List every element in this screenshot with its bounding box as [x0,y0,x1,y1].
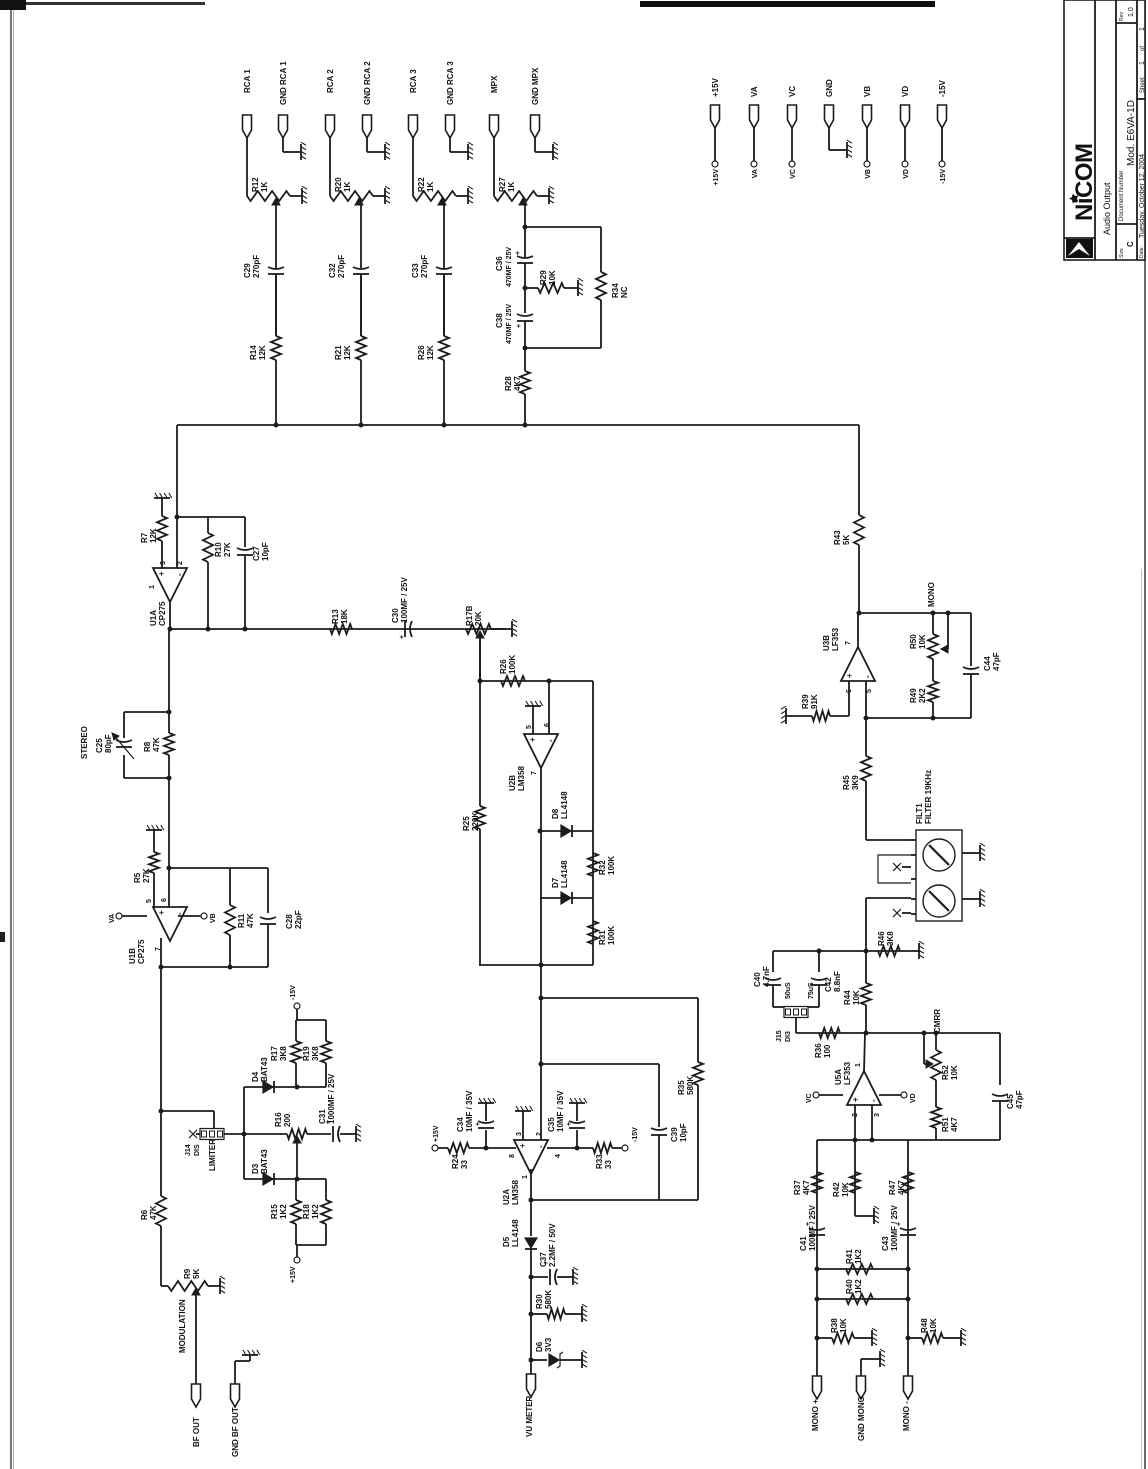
svg-text:GND BF OUT: GND BF OUT [231,1407,240,1457]
svg-text:VD: VD [910,1093,917,1103]
svg-text:10MF / 35V: 10MF / 35V [556,1090,565,1132]
svg-text:+: + [851,1097,860,1102]
svg-text:C37: C37 [539,1252,548,1267]
svg-text:R34: R34 [611,283,620,298]
svg-text:1K: 1K [260,182,269,192]
svg-text:80pF: 80pF [104,734,113,753]
svg-text:GND RCA 2: GND RCA 2 [363,61,372,105]
svg-text:2.2MF / 50V: 2.2MF / 50V [548,1223,557,1267]
svg-text:4: 4 [555,1154,562,1158]
svg-text:100MF / 25V: 100MF / 25V [890,1205,899,1251]
svg-text:FILTER 19KHz: FILTER 19KHz [924,770,933,824]
svg-text:1K2: 1K2 [854,1249,863,1264]
svg-text:LL4148: LL4148 [511,1219,520,1247]
svg-text:MONO +: MONO + [811,1399,820,1431]
svg-text:C36: C36 [495,256,504,271]
svg-text:-15V: -15V [632,1127,639,1142]
svg-text:MONO: MONO [927,582,936,607]
svg-text:5: 5 [146,899,153,903]
svg-text:C29: C29 [243,263,252,278]
svg-text:3K9: 3K9 [851,775,860,790]
svg-text:C43: C43 [881,1236,890,1251]
svg-text:R26: R26 [417,345,426,360]
svg-text:Audio Output: Audio Output [1102,182,1112,235]
svg-text:CP275: CP275 [137,939,146,964]
svg-text:RCA 3: RCA 3 [409,69,418,93]
svg-text:LM358: LM358 [511,1180,520,1205]
svg-text:580K: 580K [544,1290,553,1309]
svg-text:1.0: 1.0 [1128,7,1135,17]
svg-text:27K: 27K [223,542,232,557]
svg-text:R17B: R17B [465,605,474,626]
svg-text:1K: 1K [507,182,516,192]
svg-text:GND RCA 3: GND RCA 3 [446,61,455,105]
svg-text:-: - [175,912,184,915]
svg-text:+15V: +15V [433,1125,440,1142]
svg-text:MODULATION: MODULATION [178,1299,187,1353]
svg-text:10pF: 10pF [679,1123,688,1142]
svg-text:220K: 220K [471,812,480,831]
svg-text:C33: C33 [411,263,420,278]
svg-text:U1B: U1B [128,948,137,964]
svg-text:U2A: U2A [502,1189,511,1205]
svg-text:27K: 27K [142,868,151,883]
svg-text:5K: 5K [842,535,851,545]
svg-text:R28: R28 [504,376,513,391]
svg-text:R40: R40 [845,1279,854,1294]
svg-text:R52: R52 [941,1065,950,1080]
svg-text:R30: R30 [535,1294,544,1309]
svg-text:BAT43: BAT43 [260,1149,269,1174]
svg-text:U2B: U2B [508,775,517,791]
svg-text:5: 5 [526,725,533,729]
svg-text:C27: C27 [252,546,261,561]
svg-text:R26: R26 [499,659,508,674]
svg-text:BF OUT: BF OUT [192,1417,201,1447]
svg-text:1K2: 1K2 [854,1279,863,1294]
svg-text:D4: D4 [251,1071,260,1082]
svg-text:GND: GND [825,79,834,97]
svg-text:Title: Title [1066,241,1071,250]
svg-text:VB: VB [210,913,217,923]
svg-text:R14: R14 [249,345,258,360]
svg-text:1K2: 1K2 [311,1204,320,1219]
svg-text:R50: R50 [909,634,918,649]
svg-text:10K: 10K [852,990,861,1005]
svg-text:D7: D7 [551,877,560,888]
svg-text:2K2: 2K2 [918,688,927,703]
svg-text:MONO -: MONO - [902,1401,911,1431]
svg-text:FILT1: FILT1 [915,803,924,824]
svg-text:+: + [516,324,523,328]
svg-text:2: 2 [177,561,184,565]
svg-text:U5A: U5A [834,1069,843,1085]
svg-text:Tuesday, October 12, 2004: Tuesday, October 12, 2004 [1139,154,1146,238]
svg-text:12K: 12K [149,528,158,543]
svg-text:of: of [1140,46,1146,51]
svg-text:+: + [157,571,166,576]
svg-text:R44: R44 [843,990,852,1005]
svg-text:3K8: 3K8 [279,1046,288,1061]
svg-text:100MF / 25V: 100MF / 25V [808,1205,817,1251]
svg-text:DI3: DI3 [785,1031,792,1042]
svg-text:J14: J14 [185,1144,192,1156]
svg-text:3: 3 [160,561,167,565]
svg-text:R7: R7 [140,532,149,543]
svg-text:LM358: LM358 [517,766,526,791]
svg-text:R16: R16 [274,1112,283,1127]
svg-text:VC: VC [806,1093,813,1103]
svg-text:R38: R38 [830,1318,839,1333]
svg-text:10K: 10K [839,1318,848,1333]
svg-text:Mod. E6VA-1D: Mod. E6VA-1D [1126,100,1137,166]
svg-text:2: 2 [536,1132,543,1136]
svg-text:+: + [157,910,166,915]
svg-text:R37: R37 [793,1180,802,1195]
svg-text:1K: 1K [426,182,435,192]
svg-text:D5: D5 [502,1236,511,1247]
svg-text:33: 33 [604,1160,613,1169]
svg-text:1: 1 [1139,27,1146,31]
svg-text:1: 1 [1139,61,1146,65]
svg-text:8.8nF: 8.8nF [833,971,842,992]
svg-text:R12: R12 [251,177,260,192]
svg-text:R36: R36 [814,1043,823,1058]
svg-text:Size: Size [1119,248,1125,258]
svg-text:GND MONO: GND MONO [857,1396,866,1441]
svg-text:CMRR: CMRR [933,1009,942,1033]
svg-text:LL4148: LL4148 [560,791,569,819]
svg-text:10K: 10K [841,1182,850,1197]
svg-text:R27: R27 [498,177,507,192]
svg-text:1000MF / 25V: 1000MF / 25V [327,1073,336,1124]
svg-text:18K: 18K [340,609,349,624]
svg-text:U3B: U3B [822,635,831,651]
svg-text:10K: 10K [918,634,927,649]
svg-text:6: 6 [161,898,168,902]
svg-text:RCA 1: RCA 1 [243,69,252,93]
svg-text:R24: R24 [451,1154,460,1169]
svg-text:R11: R11 [237,913,246,928]
svg-text:+: + [845,673,854,678]
svg-text:C: C [1126,241,1135,247]
svg-text:VB: VB [865,169,872,179]
svg-text:-: - [863,675,872,678]
svg-text:22pF: 22pF [294,910,303,929]
svg-text:-15V: -15V [940,169,947,184]
svg-text:C41: C41 [799,1236,808,1251]
svg-text:C31: C31 [318,1109,327,1124]
svg-text:7: 7 [531,771,538,775]
svg-text:GND RCA 1: GND RCA 1 [279,61,288,105]
svg-text:+15V: +15V [290,1266,297,1283]
svg-text:C25: C25 [95,738,104,753]
svg-text:10K: 10K [929,1318,938,1333]
svg-text:LL4148: LL4148 [560,860,569,888]
svg-text:Sheet: Sheet [1140,77,1146,93]
svg-text:+15V: +15V [711,77,720,97]
svg-text:1: 1 [855,1063,862,1067]
svg-text:VA: VA [750,86,759,97]
svg-text:12K: 12K [258,345,267,360]
svg-text:50uS: 50uS [785,982,792,999]
svg-text:R48: R48 [920,1318,929,1333]
svg-text:R20: R20 [334,177,343,192]
svg-text:75uS: 75uS [808,982,815,999]
svg-text:R31: R31 [598,930,607,945]
svg-text:C40: C40 [753,972,762,987]
svg-text:1: 1 [149,585,156,589]
svg-text:R18: R18 [302,1204,311,1219]
svg-text:C38: C38 [495,313,504,328]
svg-text:+: + [518,1143,527,1148]
svg-text:-: - [546,739,555,742]
svg-text:47pF: 47pF [992,652,1001,671]
svg-text:MPX: MPX [490,75,499,93]
svg-text:100K: 100K [508,655,517,674]
svg-text:LF353: LF353 [831,627,840,651]
svg-text:8: 8 [509,1154,516,1158]
svg-text:R46: R46 [877,931,886,946]
svg-text:470MF / 25V: 470MF / 25V [506,247,513,287]
svg-text:3K8: 3K8 [886,931,895,946]
svg-text:D3: D3 [251,1163,260,1174]
svg-text:3: 3 [516,1132,523,1136]
svg-text:R22: R22 [417,177,426,192]
svg-text:VA: VA [752,169,759,178]
svg-text:12K: 12K [426,345,435,360]
svg-text:270pF: 270pF [420,255,429,278]
svg-text:C45: C45 [1006,1094,1015,1109]
svg-text:VA: VA [109,914,116,923]
svg-text:Date:: Date: [1139,246,1145,258]
svg-text:J15: J15 [776,1030,783,1042]
svg-text:+: + [399,635,406,639]
svg-text:200: 200 [283,1113,292,1127]
svg-text:R45: R45 [842,775,851,790]
svg-text:100K: 100K [607,856,616,875]
svg-text:D8: D8 [551,808,560,819]
svg-text:R33: R33 [595,1154,604,1169]
svg-text:7: 7 [845,641,852,645]
svg-text:+: + [528,737,537,742]
svg-text:R13: R13 [331,609,340,624]
svg-text:+: + [515,251,522,255]
svg-text:NC: NC [620,286,629,298]
svg-text:VD: VD [903,169,910,179]
svg-text:R47: R47 [888,1180,897,1195]
svg-text:Rev: Rev [1119,12,1125,21]
svg-text:C35: C35 [547,1117,556,1132]
svg-text:VC: VC [788,86,797,97]
svg-text:1: 1 [522,1175,529,1179]
svg-text:+: + [566,1122,573,1126]
svg-text:270pF: 270pF [252,255,261,278]
svg-text:470MF / 25V: 470MF / 25V [506,304,513,344]
svg-text:GND MPX: GND MPX [531,67,540,105]
svg-text:R32: R32 [598,860,607,875]
svg-text:R19: R19 [302,1046,311,1061]
svg-text:4K7: 4K7 [513,376,522,391]
svg-text:47K: 47K [152,737,161,752]
svg-text:R17: R17 [270,1046,279,1061]
svg-text:47pF: 47pF [1015,1090,1024,1109]
svg-text:R9: R9 [183,1268,192,1279]
svg-text:5K: 5K [192,1269,201,1279]
svg-text:R43: R43 [833,530,842,545]
svg-text:12K: 12K [343,345,352,360]
svg-text:100: 100 [823,1044,832,1058]
svg-text:1K: 1K [343,182,352,192]
svg-text:R8: R8 [143,741,152,752]
svg-text:+15V: +15V [713,169,720,186]
svg-text:270pF: 270pF [337,255,346,278]
svg-text:CP275: CP275 [158,601,167,626]
svg-text:+: + [475,1122,482,1126]
svg-text:D6: D6 [535,1341,544,1352]
svg-text:VU METER: VU METER [525,1395,534,1437]
svg-text:R29: R29 [539,270,548,285]
svg-text:4K7: 4K7 [802,1180,811,1195]
svg-text:33: 33 [460,1160,469,1169]
svg-text:47K: 47K [246,913,255,928]
svg-text:20K: 20K [474,611,483,626]
svg-text:R49: R49 [909,688,918,703]
svg-text:100MF / 25V: 100MF / 25V [400,577,409,623]
svg-text:R21: R21 [334,345,343,360]
svg-text:4K7: 4K7 [897,1180,906,1195]
svg-text:R39: R39 [801,694,810,709]
svg-text:VC: VC [790,169,797,179]
svg-text:BAT43: BAT43 [260,1057,269,1082]
svg-text:-: - [869,1099,878,1102]
svg-text:R25: R25 [462,816,471,831]
svg-text:R5: R5 [133,872,142,883]
svg-text:C44: C44 [983,656,992,671]
svg-text:LIMITER: LIMITER [208,1139,217,1171]
svg-text:RCA 2: RCA 2 [326,69,335,93]
svg-text:STEREO: STEREO [80,726,89,759]
svg-text:5: 5 [866,689,873,693]
svg-text:C30: C30 [391,608,400,623]
svg-text:1K2: 1K2 [279,1204,288,1219]
svg-text:3: 3 [874,1113,881,1117]
svg-text:4K7: 4K7 [950,1117,959,1132]
svg-text:VD: VD [901,86,910,97]
svg-text:R42: R42 [832,1182,841,1197]
svg-text:10K: 10K [548,270,557,285]
svg-text:R41: R41 [845,1249,854,1264]
svg-text:3K8: 3K8 [311,1046,320,1061]
svg-text:-: - [536,1145,545,1148]
svg-text:U1A: U1A [149,610,158,626]
svg-text:C28: C28 [285,914,294,929]
svg-text:100K: 100K [607,926,616,945]
svg-text:-15V: -15V [938,79,947,97]
svg-text:6: 6 [544,723,551,727]
svg-text:C39: C39 [670,1127,679,1142]
svg-text:NiCOM: NiCOM [1071,144,1098,222]
svg-text:4.7nF: 4.7nF [762,966,771,987]
svg-text:C32: C32 [328,263,337,278]
svg-text:10pF: 10pF [261,542,270,561]
svg-text:R35: R35 [677,1080,686,1095]
svg-text:-15V: -15V [290,985,297,1000]
svg-text:C34: C34 [456,1117,465,1132]
svg-text:10K: 10K [950,1065,959,1080]
svg-text:Document Number: Document Number [1119,171,1125,221]
svg-text:-: - [175,573,184,576]
svg-text:VB: VB [863,86,872,97]
svg-text:47K: 47K [149,1205,158,1220]
svg-text:3V3: 3V3 [544,1337,553,1352]
svg-text:R10: R10 [214,542,223,557]
svg-text:580K: 580K [686,1076,695,1095]
svg-text:R6: R6 [140,1209,149,1220]
svg-text:R15: R15 [270,1204,279,1219]
svg-text:C42: C42 [824,977,833,992]
svg-text:10MF / 35V: 10MF / 35V [465,1090,474,1132]
svg-text:DIS: DIS [194,1144,201,1156]
svg-text:LF353: LF353 [843,1061,852,1085]
svg-text:R51: R51 [941,1117,950,1132]
svg-text:91K: 91K [810,694,819,709]
